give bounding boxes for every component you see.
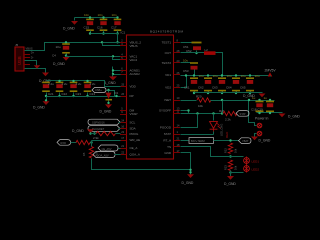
svg-text:SYSOFF: SYSOFF (159, 109, 171, 113)
wire branch to second VDD pin (113, 57, 121, 60)
ground D_GND (divider) (230, 173, 232, 177)
capacitor C64 (right row) (235, 74, 237, 76)
svg-text:D-: D- (31, 56, 34, 60)
svg-text:2.2u: 2.2u (76, 82, 82, 86)
svg-text:10k: 10k (234, 148, 238, 153)
svg-text:STAT: STAT (240, 112, 247, 116)
diode D1 (ESD protection) (108, 91, 110, 93)
capacitor C61 (right row) (193, 74, 195, 76)
svg-text:LED2: LED2 (252, 168, 260, 172)
svg-text:LED_CHG: LED_CHG (220, 124, 224, 136)
svg-text:STAT: STAT (164, 132, 171, 136)
pin 1 VBUS of J5 (24, 50, 30, 52)
svg-text:D_GND: D_GND (63, 27, 75, 31)
svg-text:C22: C22 (62, 92, 68, 96)
svg-text:R23: R23 (224, 165, 228, 170)
svg-text:CE_A: CE_A (130, 146, 138, 150)
ground D_GND (C4) (66, 56, 68, 57)
svg-text:10u: 10u (199, 74, 204, 78)
ground D_GND (left row) (46, 97, 48, 101)
ground D_GND (IC) (187, 174, 194, 178)
svg-text:C53: C53 (183, 69, 189, 73)
svg-text:10u: 10u (213, 74, 218, 78)
svg-text:R5: R5 (82, 152, 86, 156)
svg-text:TEST1: TEST1 (162, 40, 172, 44)
svg-text:10u: 10u (255, 74, 260, 78)
wire GND pin of J5 (25, 69, 46, 73)
wire branch VBUS to second pin (103, 43, 121, 46)
wire power-in gnd bus (259, 112, 261, 114)
svg-text:WR_AE: WR_AE (130, 138, 141, 142)
svg-text:C63: C63 (212, 85, 218, 89)
ground D_GND (D1) (105, 104, 112, 108)
svg-text:D_GND: D_GND (259, 139, 271, 143)
svg-text:10u: 10u (183, 58, 188, 62)
svg-text:CE_A5V: CE_A5V (102, 147, 112, 151)
svg-text:SCL: SCL (130, 121, 136, 125)
ground D_GND (right row) (259, 94, 266, 98)
ground D_GND (top row) (74, 18, 76, 21)
ground D_GND (JP1) (251, 137, 258, 141)
svg-text:VD2: VD2 (165, 86, 171, 90)
svg-text:C23: C23 (76, 92, 82, 96)
svg-text:2.2u: 2.2u (90, 82, 96, 86)
svg-text:USB: USB (17, 56, 22, 65)
IC right pins (174, 42, 181, 44)
svg-text:2.2u: 2.2u (62, 82, 68, 86)
svg-text:D_GND: D_GND (53, 62, 65, 66)
svg-text:D1: D1 (115, 91, 119, 95)
wire SYSOFF net (189, 113, 223, 115)
wire LED1 to STAT pin (213, 132, 215, 135)
ground D_GND (J5 shield) (42, 73, 49, 77)
svg-text:J5: J5 (15, 43, 19, 47)
capacitor C51 (on OUT) (181, 42, 192, 44)
svg-text:VSSP: VSSP (130, 112, 138, 116)
svg-text:10k: 10k (198, 104, 203, 108)
wire bottom ground run (92, 159, 191, 170)
svg-text:D_GND: D_GND (288, 115, 300, 119)
net flag PLUGDET (88, 126, 120, 132)
wire +rail top bus (181, 75, 271, 77)
capacitor C53 (on TEST2) (181, 62, 191, 64)
svg-text:VD1: VD1 (165, 73, 171, 77)
svg-text:SDA: SDA (130, 127, 136, 131)
net flag SSPND (88, 119, 120, 125)
wire pin4 of J5 to ground (25, 61, 37, 66)
wire TS node (181, 147, 244, 157)
capacitor C62 (right row) (207, 74, 209, 76)
svg-text:USB+: USB+ (95, 88, 102, 92)
svg-text:A_GND: A_GND (104, 81, 116, 85)
svg-text:RT_A: RT_A (163, 139, 171, 143)
resistor R5 (pulldown) (89, 147, 93, 159)
svg-text:C21: C21 (48, 92, 54, 96)
IC left pins (120, 42, 127, 44)
ground D_GND (J5 pin4) (34, 65, 41, 68)
svg-text:SSPND/16: SSPND/16 (92, 121, 105, 125)
svg-text:10u: 10u (241, 74, 246, 78)
resistor R4 (series) (71, 142, 77, 144)
svg-text:LED1: LED1 (252, 160, 260, 164)
svg-text:VDD: VDD (130, 84, 137, 88)
capacitor C63 (right row) (221, 74, 223, 76)
svg-text:VAC2: VAC2 (130, 58, 138, 62)
svg-text:D_GND: D_GND (224, 182, 236, 186)
resistor R20 (ISET) (181, 100, 197, 102)
net flag RXD (57, 140, 71, 146)
wire right row bottom bus (GND) (195, 92, 263, 94)
connector JP1 pin 1 (Power In) (257, 123, 262, 128)
wire OUT via L2 to +rail (216, 53, 223, 76)
svg-text:ISET: ISET (164, 98, 171, 102)
LED1 (charge indicator) (213, 114, 215, 121)
svg-text:VBUS: VBUS (26, 46, 33, 50)
svg-text:C64: C64 (226, 85, 232, 89)
svg-text:C24: C24 (90, 92, 96, 96)
LED2 (circle diode) (246, 157, 248, 173)
svg-text:BQ24075RGTRDM: BQ24075RGTRDM (150, 30, 184, 34)
svg-text:R20: R20 (196, 95, 202, 99)
wire SYSOFF pins tie (181, 110, 189, 112)
wire R23 to LED return (231, 171, 244, 173)
svg-text:R22: R22 (224, 148, 228, 153)
svg-text:D_GND: D_GND (33, 105, 45, 109)
svg-text:2MV5V: 2MV5V (265, 68, 277, 72)
resistor R22 (divider top) (228, 143, 232, 154)
resistor R3 2.9k (PROG) (91, 133, 97, 135)
capacitor C65 (right row) (249, 74, 251, 76)
svg-text:DP: DP (130, 94, 134, 98)
svg-text:2.9k: 2.9k (93, 136, 99, 140)
wire left row bottom bus (GND) (47, 96, 117, 98)
svg-text:C17: C17 (111, 26, 117, 30)
svg-text:2.2u: 2.2u (48, 82, 54, 86)
net flag USB+ (DP line) (92, 88, 106, 93)
svg-text:VBUS: VBUS (130, 44, 138, 48)
wire BAT net (214, 140, 239, 142)
svg-text:PGOOD: PGOOD (160, 126, 172, 130)
svg-text:10n: 10n (98, 13, 103, 17)
wire branch to caps rail (222, 101, 224, 114)
svg-text:C62: C62 (198, 85, 204, 89)
op-amp IC U1 (main charger IC) (127, 35, 174, 159)
supply +5V arrow (268, 72, 273, 76)
capacitor C24 (left row) (84, 82, 92, 84)
label box BAT (181, 140, 189, 142)
wire pin25 jog to +rail (181, 76, 187, 88)
svg-text:C15: C15 (84, 26, 90, 30)
svg-text:2.2k: 2.2k (225, 118, 231, 122)
wire VDD rail from C4 node to IC (67, 56, 121, 57)
svg-text:Power In: Power In (255, 117, 268, 121)
capacitor C21 (left row) (42, 82, 50, 84)
svg-text:10k: 10k (234, 165, 238, 170)
svg-text:D_GND: D_GND (182, 181, 194, 185)
wire VBUS from J5 to IC (25, 43, 121, 51)
svg-text:OUT: OUT (165, 51, 172, 55)
svg-text:QOA_A5V: QOA_A5V (97, 154, 109, 158)
wire top row bottom bus (VBUS) (91, 34, 118, 43)
svg-text:RXD: RXD (61, 141, 67, 145)
connector JP1 pin 2 (Power In) (257, 131, 262, 136)
svg-text:VBAT: VBAT (242, 139, 249, 143)
net flag STAT1 (236, 111, 249, 117)
ground A_GND (112, 75, 114, 77)
svg-text:AGND2: AGND2 (130, 72, 141, 76)
svg-text:D_GND: D_GND (72, 129, 84, 133)
net flag QOA_A (93, 152, 115, 158)
svg-text:10n: 10n (84, 13, 89, 17)
LED3 (circle diode) (244, 166, 250, 172)
wire ISET to power-in caps (211, 100, 275, 102)
wire JP1 pin2 to ground (255, 134, 257, 137)
svg-text:C18 C19: C18 C19 (251, 107, 263, 111)
wire to WR_AE pin (92, 140, 121, 142)
svg-text:TEST2: TEST2 (162, 61, 172, 65)
left decoupling bus (VDD rail) (47, 81, 121, 87)
svg-text:C16: C16 (97, 26, 103, 30)
wire DP to IC (107, 91, 121, 97)
svg-text:C61: C61 (184, 85, 190, 89)
svg-text:BAT+TERM: BAT+TERM (191, 139, 205, 143)
svg-text:1u: 1u (264, 96, 268, 100)
svg-text:IC1: IC1 (121, 31, 126, 35)
svg-text:C4: C4 (52, 54, 56, 58)
svg-text:C65: C65 (240, 85, 246, 89)
wire AGND pins tie (113, 70, 121, 72)
svg-text:1u: 1u (252, 96, 256, 100)
net flag CE_A (98, 145, 118, 151)
capacitor C23 (left row) (70, 82, 78, 84)
svg-text:PROG: PROG (130, 132, 140, 136)
svg-text:GND: GND (164, 151, 172, 155)
svg-text:QOA_A: QOA_A (130, 153, 140, 157)
capacitor C22 (left row) (56, 82, 64, 84)
svg-text:RED: RED (225, 131, 229, 138)
net flag VBAT (239, 138, 252, 144)
svg-text:10u: 10u (227, 74, 232, 78)
svg-text:10n: 10n (112, 13, 117, 17)
svg-text:PLUGDET: PLUGDET (92, 127, 105, 131)
wire branch to PGOOD pin (181, 114, 198, 128)
svg-text:D_GND: D_GND (100, 109, 112, 113)
ground D_GND (caps C18/C19) (279, 114, 286, 118)
resistor R23 (divider bottom) (228, 160, 232, 171)
svg-text:TS: TS (167, 145, 171, 149)
wire GND pin drop (181, 153, 191, 175)
wire top decoupling bus (GND) (75, 17, 118, 19)
wire to power-in connector (249, 101, 257, 126)
svg-text:10u: 10u (56, 45, 61, 49)
